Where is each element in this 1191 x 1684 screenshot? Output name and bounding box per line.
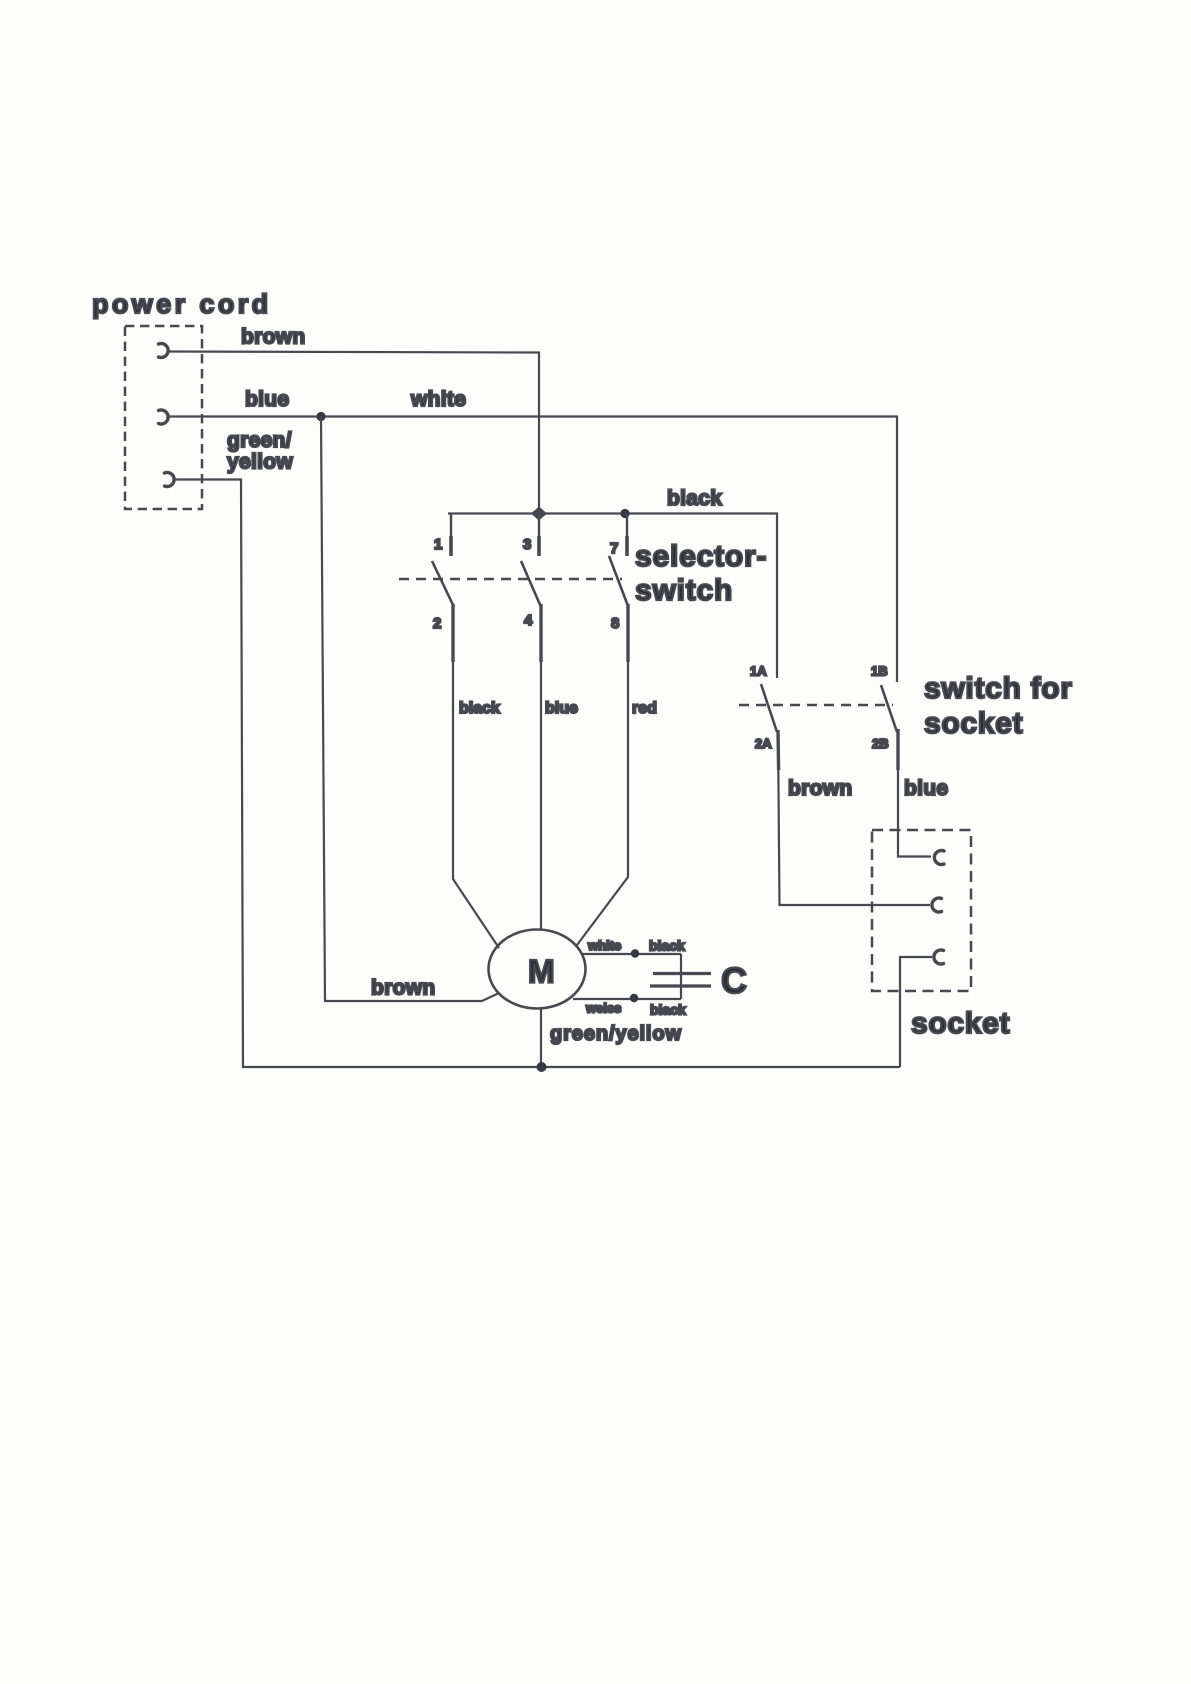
label black (wire) (459, 700, 500, 717)
label black (cap bottom) (650, 1002, 686, 1018)
switch for socket pole A blade (761, 684, 777, 732)
wire green/yellow: motor to bottom bus (540, 1008, 542, 1067)
pin label 4 (524, 612, 533, 629)
svg-text:blue: blue (545, 700, 578, 717)
socket contact bottom (hook) (934, 950, 944, 964)
label switch for socket (924, 672, 1073, 740)
selector pole blade 1-2 (432, 561, 454, 607)
svg-text:green/: green/ (227, 429, 292, 452)
socket box (dashed) (872, 830, 971, 991)
pin label 1B (871, 664, 888, 679)
pin label 2 (433, 615, 441, 632)
switch for socket pole B blade (881, 685, 897, 732)
selector pole contact 7 stub (626, 514, 628, 557)
label brown (241, 326, 306, 349)
power cord pin PE (green/yellow) (165, 472, 175, 486)
svg-text:brown: brown (788, 777, 853, 800)
wire socket bottom contact to bottom bus (900, 957, 932, 1067)
svg-text:2B: 2B (872, 736, 889, 751)
selector pole blade 7-8 (609, 556, 628, 606)
wire weiss: motor to capacitor (573, 998, 681, 1000)
node white/black (631, 949, 639, 957)
svg-text:C: C (721, 960, 747, 1001)
wire brown L: power cord to selector bus (168, 352, 539, 509)
node weiss/black (630, 994, 638, 1002)
socket contact middle (hook) (932, 898, 942, 912)
svg-text:8: 8 (611, 615, 619, 632)
wire blue: 2B to socket top contact (898, 729, 931, 857)
svg-text:brown: brown (371, 977, 436, 1000)
svg-text:blue: blue (904, 777, 948, 800)
wire brown: N node down to motor (321, 417, 499, 1002)
svg-text:switch for: switch for (924, 672, 1073, 705)
selector pole contact 1 stub (450, 514, 452, 557)
wire blue: pole 4 to motor (540, 662, 542, 930)
label red (wire) (632, 700, 657, 717)
svg-text:black: black (649, 938, 685, 954)
node N junction (316, 412, 325, 421)
pin label 2A (755, 736, 772, 751)
svg-text:3: 3 (523, 536, 531, 553)
wire black: pole 2 to motor (453, 662, 499, 948)
power cord connector box (dashed) (125, 326, 202, 509)
svg-text:power cord: power cord (92, 289, 272, 319)
svg-text:green/yellow: green/yellow (550, 1023, 682, 1045)
svg-text:switch: switch (635, 574, 733, 607)
label socket (911, 1007, 1010, 1040)
svg-text:socket: socket (911, 1007, 1010, 1040)
node bus/pole7 (dot) (620, 509, 629, 518)
svg-text:blue: blue (245, 388, 289, 411)
svg-text:white: white (410, 388, 466, 411)
label black (cap top) (649, 938, 685, 954)
label black (bus) (667, 487, 722, 510)
selector coupling dashed line (399, 578, 622, 580)
label green/yellow (550, 1023, 682, 1045)
svg-text:selector-: selector- (635, 540, 767, 573)
wire black selector bus (448, 514, 777, 679)
selector pole contact 2 stub (451, 604, 454, 662)
motor M1 body (489, 930, 586, 1009)
label brown (motor) (371, 977, 436, 1000)
wire red: pole 8 to motor (577, 662, 628, 945)
svg-text:white: white (587, 938, 621, 953)
power cord label (92, 289, 272, 319)
label brown (switch) (788, 777, 853, 800)
label weiss (585, 1001, 621, 1016)
svg-text:black: black (667, 487, 722, 510)
wire blue/white N: power cord to switch pin 1B (167, 417, 897, 683)
label white (410, 388, 466, 411)
label blue (wire) (545, 700, 578, 717)
pin label 1 (434, 536, 442, 553)
wire white: motor to capacitor (582, 953, 681, 955)
node bus/brown drop (diamond) (531, 507, 547, 521)
svg-text:1B: 1B (871, 664, 888, 679)
svg-text:black: black (650, 1002, 686, 1018)
node green/yellow junction (537, 1062, 547, 1072)
selector pole contact 4 stub (539, 604, 542, 662)
motor label M (528, 954, 555, 990)
label selector-switch (635, 540, 767, 607)
wire brown: 2A to socket middle contact (778, 730, 930, 905)
capacitor C1 (650, 954, 711, 999)
selector pole blade 3-4 (521, 561, 541, 607)
label blue (switch) (904, 777, 948, 800)
label C (721, 960, 747, 1001)
socket contact top (hook) (934, 851, 944, 865)
power cord pin N (blue) (159, 410, 169, 424)
svg-text:red: red (632, 700, 657, 717)
selector pole contact 3 stub (538, 514, 540, 557)
svg-text:2: 2 (433, 615, 441, 632)
svg-text:brown: brown (241, 326, 306, 349)
pin label 3 (523, 536, 531, 553)
svg-text:black: black (459, 700, 500, 717)
power cord pin L (brown) (159, 344, 169, 358)
svg-text:7: 7 (610, 540, 618, 557)
svg-text:1: 1 (434, 536, 442, 553)
svg-text:4: 4 (524, 612, 533, 629)
switch for socket coupling dashed line (739, 704, 893, 706)
wire green/yellow PE: power cord to bottom bus (174, 480, 900, 1068)
svg-text:1A: 1A (750, 664, 767, 679)
svg-text:socket: socket (924, 707, 1023, 740)
svg-text:yellow: yellow (227, 451, 293, 474)
svg-text:2A: 2A (755, 736, 772, 751)
pin label 7 (610, 540, 618, 557)
selector pole contact 8 stub (626, 604, 629, 662)
svg-text:M: M (528, 954, 555, 990)
pin label 2B (872, 736, 889, 751)
pin label 1A (750, 664, 767, 679)
svg-text:weiss: weiss (585, 1001, 621, 1016)
pin label 8 (611, 615, 619, 632)
label green/yellow (power cord) (227, 429, 293, 474)
label blue (245, 388, 289, 411)
label white (motor) (587, 938, 621, 953)
